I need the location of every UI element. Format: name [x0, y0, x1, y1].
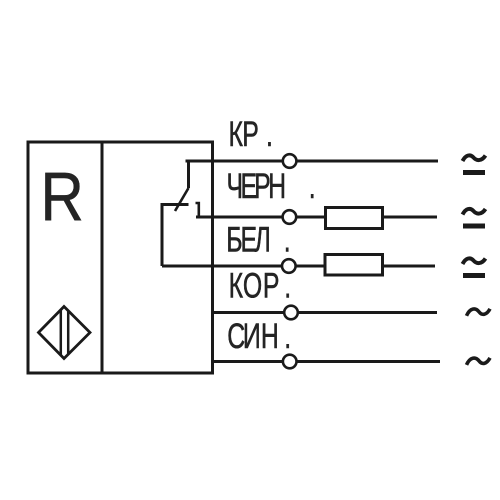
label KR. (red wire label) [229, 115, 273, 154]
svg-text:.: . [309, 167, 316, 206]
terminal circle BEL [282, 259, 296, 273]
AC symbol (tilde over bar) at BEL wire [463, 258, 486, 275]
svg-text:Р: Р [242, 115, 259, 154]
svg-text:Р: Р [263, 266, 280, 305]
wire CHERN (black) [196, 216, 437, 219]
wire BEL (white) [162, 265, 435, 268]
switch lever [175, 188, 189, 211]
wire SIN (blue) [212, 360, 440, 363]
switch common lead down to BEL wire [161, 205, 164, 267]
svg-text:.: . [266, 115, 273, 154]
AC symbol (tilde over bar) at CHERN wire [463, 209, 486, 226]
AC tilde at SIN wire [467, 358, 491, 365]
label SIN. (blue wire label) [227, 317, 291, 356]
svg-text:И: И [243, 317, 261, 356]
switch stub from KR wire [187, 161, 190, 188]
terminal circle KR [283, 154, 297, 168]
terminal circle CHERN [283, 210, 297, 224]
resistor on CHERN wire [326, 208, 383, 229]
AC symbol (tilde over bar) at KR wire [463, 155, 486, 172]
proximity sensor diamond symbol [39, 307, 91, 359]
label KOR. (brown wire label) [229, 266, 292, 305]
svg-text:К: К [229, 266, 244, 305]
wire KR (red) [186, 160, 439, 163]
svg-text:Н: Н [261, 317, 279, 356]
AC tilde at KOR wire [467, 309, 491, 316]
terminal circle KOR [284, 306, 298, 320]
svg-text:.: . [284, 220, 291, 259]
svg-text:Л: Л [255, 220, 271, 259]
sensor body outline [28, 142, 213, 373]
diamond inner line left [60, 310, 63, 355]
svg-text:О: О [243, 266, 262, 305]
svg-text:К: К [229, 115, 244, 154]
switch fixed contact to CHERN wire [196, 203, 199, 217]
diamond inner line right [67, 310, 70, 355]
svg-text:R: R [41, 157, 84, 235]
sensor body divider [101, 142, 104, 373]
resistor on BEL wire [325, 255, 383, 276]
switch common contact bar [161, 203, 189, 206]
svg-text:.: . [284, 317, 291, 356]
wire KOR (brown) [212, 311, 437, 314]
terminal circle SIN [283, 355, 297, 369]
label CHERN. (black wire label) [227, 167, 316, 206]
svg-text:Н: Н [268, 167, 286, 206]
label BEL. (white wire label) [226, 220, 290, 259]
